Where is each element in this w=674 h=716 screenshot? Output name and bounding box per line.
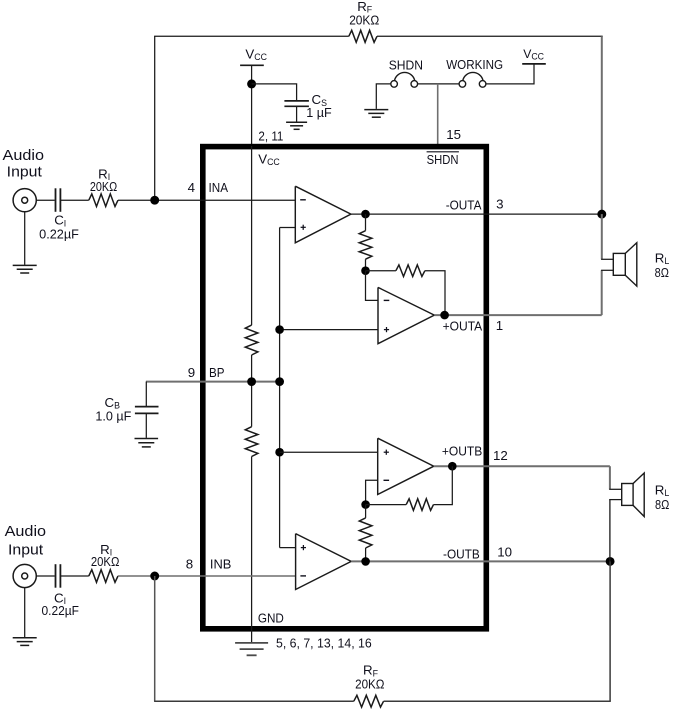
svg-text:Input: Input	[8, 541, 44, 558]
ground jack A	[13, 264, 37, 266]
wire bottom feedback horizontal left	[154, 700, 354, 702]
resistor RI-A 20KΩ	[89, 194, 118, 207]
power VCC supply bar (left)	[240, 64, 264, 66]
wire BP pin 9	[146, 381, 280, 383]
wire CS branch	[252, 84, 297, 100]
capacitor CI-A plates	[55, 188, 57, 212]
op-amp A2 minus sign	[384, 299, 390, 301]
op-amp B1 triangle	[296, 534, 352, 590]
svg-text:4: 4	[188, 180, 195, 195]
switch SHDN arc	[395, 72, 415, 80]
svg-text:1: 1	[496, 318, 503, 333]
resistor RF (top) 20KΩ	[349, 30, 377, 42]
wire speaker A stub bottom	[601, 269, 613, 271]
capacitor CI-B plates	[55, 564, 57, 588]
ground jack B	[13, 637, 37, 639]
svg-text:-OUTA: -OUTA	[446, 197, 482, 212]
wire B1 output -OUTB	[351, 560, 610, 562]
resistor bias upper	[245, 325, 258, 355]
wire resistor to mid node A	[365, 259, 367, 271]
wire jack A to CI	[36, 199, 54, 201]
resistor internal A vertical	[359, 231, 372, 260]
op-amp A2 plus sign	[384, 329, 389, 331]
node INB/feedback junction	[150, 572, 159, 581]
wire jack B ground leg	[24, 588, 26, 638]
wire top feedback RF-A horizontal left	[154, 35, 349, 37]
wire switch ground stub	[376, 84, 394, 109]
wire mid A to A2 minus input	[366, 271, 379, 301]
node B2 output	[448, 462, 457, 471]
wire +OUTB down to speaker B	[609, 466, 611, 489]
wire mid B to resistor	[365, 505, 367, 518]
connector jack A outer	[13, 189, 36, 212]
connector jack B outer	[13, 564, 36, 587]
wire bottom feedback left vertical	[154, 576, 156, 701]
wire bottom feedback right vertical	[609, 561, 611, 701]
wire CI-B to RI-B	[60, 575, 88, 577]
node mid A	[361, 266, 370, 275]
capacitor CS plates	[284, 100, 309, 102]
wire top feedback RF-A left vertical	[154, 36, 156, 196]
wire top feedback RF-A horizontal right	[377, 35, 603, 37]
node mid B	[361, 500, 370, 509]
op-amp B2 plus sign	[384, 451, 389, 453]
svg-text:Input: Input	[7, 164, 43, 181]
resistor feedback B2	[406, 499, 433, 511]
wire A2 output +OUTA	[434, 314, 601, 316]
svg-text:0.22µF: 0.22µF	[39, 228, 79, 242]
switch WORKING contact left	[459, 81, 466, 88]
wire VCC rail upper segment	[251, 146, 253, 325]
svg-text:GND: GND	[258, 610, 284, 625]
wire switch to VCC right	[486, 64, 534, 84]
wire speaker B to -OUTB junction	[609, 500, 611, 562]
svg-text:9: 9	[188, 365, 195, 380]
svg-text:1 µF: 1 µF	[306, 106, 332, 120]
speaker RL-A cone	[625, 243, 637, 286]
svg-text:INB: INB	[210, 557, 232, 572]
connector jack B inner	[22, 573, 28, 579]
svg-text:Audio: Audio	[3, 147, 45, 164]
switch SHDN contact right	[411, 81, 418, 88]
wire CB to ground	[145, 413, 147, 438]
svg-text:WORKING: WORKING	[446, 57, 503, 72]
wire mid A to feedback resistor A2	[366, 270, 396, 272]
wire B2 minus path	[366, 480, 378, 504]
wire CS to ground	[296, 106, 298, 121]
svg-text:2, 11: 2, 11	[258, 129, 283, 144]
wire A2 + input from rail	[280, 329, 378, 331]
op-amp A2 triangle	[378, 287, 434, 343]
capacitor CB plates	[135, 406, 159, 408]
wire speaker B stub top	[609, 488, 622, 490]
wire +OUTA up to speaker A	[601, 270, 603, 315]
wire RI-A to pin 4 INA	[118, 199, 295, 201]
svg-text:SHDN: SHDN	[427, 152, 459, 167]
svg-text:12: 12	[493, 448, 508, 463]
speaker RL-B cone	[633, 473, 644, 517]
wire A1 + input from common rail	[280, 227, 296, 229]
switch WORKING arc	[463, 72, 483, 80]
op-amp A1 triangle	[295, 186, 351, 243]
svg-text:20KΩ: 20KΩ	[355, 677, 384, 691]
switch SHDN contact left	[391, 81, 398, 88]
resistor RI-B 20KΩ	[89, 570, 118, 583]
svg-text:8Ω: 8Ω	[655, 266, 669, 280]
wire mid B to feedback resistor B2	[366, 504, 407, 506]
op-amp B2 minus sign	[384, 479, 390, 481]
svg-text:SHDN: SHDN	[389, 58, 423, 73]
power VCC supply bar (right)	[522, 63, 546, 65]
svg-text:8Ω: 8Ω	[655, 498, 669, 512]
wire jack B to CI	[36, 575, 54, 577]
wire feedback A2 to output	[425, 271, 445, 315]
svg-text:0.22µF: 0.22µF	[42, 604, 80, 618]
node rail A2+ tap	[275, 325, 284, 334]
wire speaker B stub bottom	[609, 499, 622, 501]
svg-text:+OUTB: +OUTB	[442, 443, 483, 458]
resistor RF (bottom) 20KΩ	[354, 695, 384, 707]
wire CI-A to RI-A	[60, 199, 88, 201]
node INA/feedback junction	[150, 196, 159, 205]
svg-text:5, 6, 7, 13, 14, 16: 5, 6, 7, 13, 14, 16	[276, 636, 372, 651]
wire between switches	[418, 83, 460, 85]
wire bottom feedback horizontal right	[384, 700, 611, 702]
ground CB	[135, 438, 159, 440]
svg-text:INA: INA	[209, 180, 229, 195]
node rail B2+ tap	[275, 448, 284, 457]
wire jack A ground leg	[24, 212, 26, 265]
node -OUTB/feedback junction	[606, 557, 615, 566]
svg-text:1.0 µF: 1.0 µF	[95, 410, 131, 424]
svg-text:15: 15	[446, 127, 461, 142]
node BP bias rail junction	[247, 377, 256, 386]
svg-text:20KΩ: 20KΩ	[349, 13, 379, 27]
wire resistor to B1 output	[365, 548, 367, 561]
wire common-mode rail vertical	[279, 228, 281, 548]
ground IC GND	[235, 642, 268, 644]
node BP common rail junction	[275, 377, 284, 386]
wire feedback B2 to output	[434, 466, 453, 504]
wire B1 + input from rail	[280, 547, 296, 549]
op-amp B1 minus sign	[300, 575, 306, 577]
node A1 output	[361, 210, 370, 219]
wire BP to CB	[145, 382, 147, 406]
wire speaker A stub top	[601, 258, 613, 260]
node VCC/CS junction	[247, 79, 256, 88]
ground CS	[286, 121, 307, 123]
ground switch	[364, 109, 388, 111]
wire RI-B to pin 8 INB	[118, 575, 296, 577]
svg-text:+OUTA: +OUTA	[443, 319, 483, 334]
resistor bias lower	[245, 427, 258, 457]
resistor internal B vertical	[359, 518, 372, 548]
connector jack A inner	[22, 197, 28, 203]
op-amp B1 plus sign	[301, 547, 306, 549]
wire VCC down to IC	[251, 65, 253, 146]
wire A1 out to resistor	[365, 214, 367, 231]
svg-text:Audio: Audio	[5, 523, 47, 540]
svg-text:8: 8	[186, 557, 193, 572]
wire B2 + input from rail	[280, 451, 378, 453]
op-amp A1 minus sign	[300, 199, 306, 201]
svg-text:10: 10	[497, 544, 512, 559]
wire A1 output -OUTA	[351, 213, 602, 215]
speaker RL-A box	[613, 253, 625, 275]
node B1 output	[361, 557, 370, 566]
wire B2 output +OUTB	[434, 465, 610, 467]
svg-text:3: 3	[496, 197, 503, 212]
svg-text:20KΩ: 20KΩ	[91, 555, 120, 569]
speaker RL-B box	[622, 484, 633, 506]
IC body outline	[203, 147, 487, 629]
wire pin 15 SHDN	[437, 84, 439, 146]
op-amp A1 plus sign	[301, 226, 306, 228]
svg-text:-OUTB: -OUTB	[443, 546, 480, 561]
resistor feedback A2	[396, 265, 425, 277]
node -OUTA/feedback junction	[597, 210, 606, 219]
wire feedback A right vertical	[601, 36, 603, 214]
wire VCC rail mid segment	[251, 355, 253, 427]
svg-text:BP: BP	[209, 365, 225, 380]
op-amp B2 triangle	[378, 438, 434, 494]
wire feedback vertical to speaker A stub	[601, 214, 603, 259]
wire VCC rail lower segment	[251, 457, 253, 643]
node A2 output	[440, 311, 449, 320]
svg-text:20KΩ: 20KΩ	[90, 180, 117, 194]
switch WORKING contact right	[479, 81, 486, 88]
